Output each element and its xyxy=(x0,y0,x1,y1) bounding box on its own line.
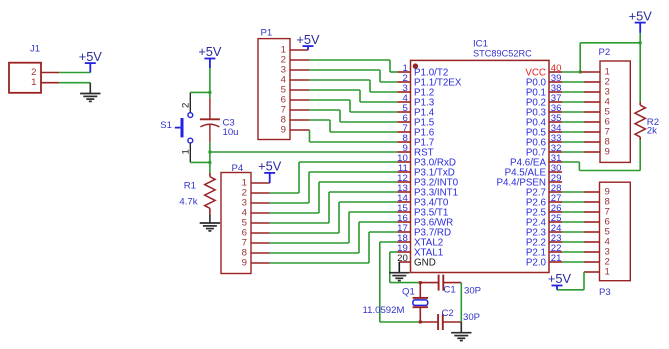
label IC1 xyxy=(473,38,488,49)
wire P1 pin3 to IC1 pin2 xyxy=(290,70,398,82)
label 11.0592M xyxy=(363,305,405,316)
svg-text:4.7k: 4.7k xyxy=(179,196,197,207)
IC1 pin 26 (P2.5) xyxy=(526,203,562,218)
svg-text:1: 1 xyxy=(31,77,36,88)
ground (J1) xyxy=(80,83,100,102)
junction (RST tap) xyxy=(208,151,211,154)
power +5V (P1) xyxy=(296,32,320,50)
svg-text:2: 2 xyxy=(181,103,192,108)
wire RST node to IC pin 9 xyxy=(210,151,398,153)
label C1 value 30P xyxy=(444,284,482,296)
wire IC1 pin32 (P0.7) to P2 pin9 xyxy=(562,151,600,153)
power +5V (P3) xyxy=(548,271,572,290)
wire P4 pin8 to IC1 pin16 xyxy=(251,222,398,253)
label C3 value 10u xyxy=(223,117,239,138)
wire P4 pin7 to IC1 pin15 xyxy=(251,212,398,243)
connector P1 xyxy=(258,28,290,140)
IC1 pin 35 (P0.4) xyxy=(526,113,562,128)
svg-text:9: 9 xyxy=(281,125,286,136)
capacitor C2 xyxy=(420,314,461,330)
svg-text:C2: C2 xyxy=(442,308,454,319)
wire P1 pin7 to IC1 pin6 xyxy=(290,110,398,122)
IC1 pin 37 (P0.2) xyxy=(526,93,562,108)
IC1 pin 34 (P0.5) xyxy=(526,123,562,138)
wire C3 bottom to RST node xyxy=(209,142,211,173)
IC1 pin 11 (P3.1/TxD) xyxy=(398,163,455,178)
IC1 pin 30 (P4.5/ALE) xyxy=(505,163,562,178)
svg-text:Q1: Q1 xyxy=(402,286,415,297)
IC1 pin 40 (VCC) xyxy=(525,63,562,78)
wire P4 pin9 to IC1 pin17 xyxy=(251,232,398,263)
wire J1 pin1 to ground xyxy=(41,82,90,84)
IC1 pin 4 (P1.3) xyxy=(398,93,435,108)
wire P1 pin8 to IC1 pin7 xyxy=(290,120,398,132)
wire P1 pin6 to IC1 pin5 xyxy=(290,100,398,112)
wire P1 pin9 to IC1 pin8 xyxy=(290,130,398,142)
IC1 pin 18 (XTAL2) xyxy=(397,233,443,248)
wire P4 pin2 to IC1 pin10 xyxy=(251,162,398,193)
svg-text:GND: GND xyxy=(414,257,436,268)
wire IC1 pin25 (P2.4) to P3 pin6 xyxy=(562,221,600,223)
IC1 pin 27 (P2.6) xyxy=(526,193,562,208)
wire S1 top to node xyxy=(190,91,210,93)
wire R2 bottom to IC pin31 EA xyxy=(562,140,640,170)
power +5V (top right) xyxy=(629,8,653,33)
crystal Q1 xyxy=(413,283,428,322)
capacitor C1 xyxy=(420,275,461,291)
svg-text:21: 21 xyxy=(551,253,562,264)
junction (S1 top node) xyxy=(208,91,211,94)
switch S1 xyxy=(160,92,192,162)
IC1 pin 21 (P2.0) xyxy=(526,253,562,268)
wire XTAL2 (pin18) to crystal bottom node xyxy=(380,242,421,322)
connector P3 xyxy=(599,182,630,298)
resistor R1 xyxy=(205,173,215,215)
wire IC1 pin38 (P0.1) to P2 pin3 xyxy=(562,91,600,93)
IC1 pin 24 (P2.3) xyxy=(526,223,562,238)
svg-text:+5V: +5V xyxy=(296,32,320,47)
IC1 pin 7 (P1.6) xyxy=(398,123,435,138)
IC1 pin 38 (P0.1) xyxy=(526,83,562,98)
IC1 pin 39 (P0.0) xyxy=(526,73,562,88)
svg-text:P4: P4 xyxy=(232,163,244,174)
IC1 pin 13 (P3.3/INT1) xyxy=(397,183,458,198)
label R1 value 4.7k xyxy=(179,181,197,208)
wire S1 bottom to node xyxy=(190,161,210,163)
wire P2 pin1 stub xyxy=(580,71,600,73)
IC1 pin 14 (P3.4/T0) xyxy=(397,193,449,208)
wire P4 pin4 to IC1 pin12 xyxy=(251,182,398,213)
wire IC1 pin22 (P2.1) to P3 pin3 xyxy=(562,251,600,253)
label R2 value 2k xyxy=(647,117,659,137)
svg-text:2k: 2k xyxy=(647,126,657,137)
IC1 pin 17 (P3.7/RD) xyxy=(397,223,451,238)
IC1 pin 29 (P4.4/PSEN) xyxy=(496,173,562,188)
wire P1 pin4 to IC1 pin3 xyxy=(290,80,398,92)
svg-text:P3: P3 xyxy=(599,287,611,298)
IC1 pin 9 (RST) xyxy=(398,143,434,158)
ground (IC GND pin20) xyxy=(389,262,409,281)
connector J1 xyxy=(9,44,41,93)
IC1 pin 15 (P3.5/T1) xyxy=(397,203,448,218)
IC1 pin 32 (P0.7) xyxy=(526,143,562,158)
svg-text:11.0592M: 11.0592M xyxy=(363,305,405,316)
svg-text:+5V: +5V xyxy=(79,49,103,64)
junction (+5V / R2 node) xyxy=(639,41,642,44)
wire IC1 pin34 (P0.5) to P2 pin7 xyxy=(562,131,600,133)
wire IC1 pin33 (P0.6) to P2 pin8 xyxy=(562,141,600,143)
junction (crystal bottom node) xyxy=(419,321,422,324)
IC1 pin 20 (GND) xyxy=(397,253,436,268)
power +5V (S1/C3) xyxy=(198,44,222,68)
wire P4 pin1 to +5V xyxy=(251,182,270,184)
IC1 pin 33 (P0.6) xyxy=(526,133,562,148)
junction (P2 pin1 tap) xyxy=(579,71,582,74)
svg-text:1: 1 xyxy=(181,149,192,154)
wire C1/C2 to ground xyxy=(460,283,462,322)
svg-text:9: 9 xyxy=(605,147,610,158)
wire IC1 pin37 (P0.2) to P2 pin4 xyxy=(562,101,600,103)
IC1 pin 36 (P0.3) xyxy=(526,103,562,118)
wire IC1 pin36 (P0.3) to P2 pin5 xyxy=(562,111,600,113)
IC1 pin 28 (P2.7) xyxy=(526,183,562,198)
IC1 pin 8 (P1.7) xyxy=(398,133,435,148)
svg-text:P2.0: P2.0 xyxy=(526,257,547,268)
IC1 pin 5 (P1.4) xyxy=(398,103,435,118)
IC1 pin 12 (P3.2/INT0) xyxy=(397,173,459,188)
wire P4 pin5 to IC1 pin13 xyxy=(251,192,398,223)
resistor R2 xyxy=(635,102,645,140)
power +5V (P4) xyxy=(258,159,282,183)
ground (R1) xyxy=(200,215,220,231)
wire IC1 pin24 (P2.3) to P3 pin5 xyxy=(562,231,600,233)
junction (S1 bottom tap) xyxy=(208,161,211,164)
svg-text:S1: S1 xyxy=(160,120,172,131)
svg-text:10u: 10u xyxy=(223,127,239,138)
svg-text:30P: 30P xyxy=(464,285,481,296)
svg-text:R1: R1 xyxy=(184,181,196,192)
wire P3 pin1 to +5V xyxy=(557,272,600,290)
label Q1 xyxy=(402,286,415,297)
wire IC1 pin21 (P2.0) to P3 pin2 xyxy=(562,261,600,263)
wire XTAL1 (pin19) to crystal top node xyxy=(390,252,421,283)
IC1 pin 2 (P1.1/T2EX) xyxy=(398,73,462,88)
IC1 pin 3 (P1.2) xyxy=(398,83,435,98)
wire +5V to R2 xyxy=(639,33,641,102)
svg-text:P1: P1 xyxy=(261,28,273,39)
pin number 2 (S1 top, rotated) xyxy=(181,103,192,108)
IC1 pin 1 (P1.0/T2) xyxy=(398,63,449,78)
svg-text:P2: P2 xyxy=(599,47,611,58)
op IC1 STC89C52RC body xyxy=(411,60,550,272)
connector P4 xyxy=(221,163,251,274)
wire IC1 pin23 (P2.2) to P3 pin4 xyxy=(562,241,600,243)
wire P1 pin1 to +5V xyxy=(290,49,308,51)
IC1 pin 10 (P3.0/RxD) xyxy=(397,153,456,168)
wire J1 pin2 to +5V xyxy=(41,72,90,74)
wire +5V to node S1top/C3 xyxy=(209,68,211,98)
svg-text:30P: 30P xyxy=(463,312,480,323)
svg-text:+5V: +5V xyxy=(629,8,653,23)
capacitor C3 xyxy=(200,98,220,142)
svg-text:+5V: +5V xyxy=(258,159,282,174)
label C2 value 30P xyxy=(442,308,481,323)
connector P2 xyxy=(599,47,631,162)
IC1 pin 22 (P2.1) xyxy=(526,243,562,258)
svg-text:+5V: +5V xyxy=(548,271,572,286)
wire P4 pin3 to IC1 pin11 xyxy=(251,172,398,203)
wire P4 pin6 to IC1 pin14 xyxy=(251,202,398,233)
wire IC1 pin26 (P2.5) to P3 pin7 xyxy=(562,211,600,213)
svg-text:1: 1 xyxy=(605,267,610,278)
svg-text:+5V: +5V xyxy=(198,44,222,59)
junction (crystal top node) xyxy=(419,281,422,284)
IC1 pin 6 (P1.5) xyxy=(398,113,435,128)
wire P1 pin5 to IC1 pin4 xyxy=(290,90,398,102)
wire P1 pin2 to IC1 pin1 xyxy=(290,60,398,72)
label STC89C52RC xyxy=(473,48,532,59)
ground (C1/C2) xyxy=(451,322,471,341)
wire IC1 pin39 (P0.0) to P2 pin2 xyxy=(562,81,600,83)
svg-text:9: 9 xyxy=(242,258,247,269)
svg-text:C1: C1 xyxy=(444,284,456,295)
svg-text:J1: J1 xyxy=(30,44,40,55)
IC1 pin 31 (P4.6/EA) xyxy=(510,153,562,168)
IC1 pin 25 (P2.4) xyxy=(526,213,562,228)
wire IC pin40 VCC to P2 pin1 and +5V xyxy=(562,43,640,72)
wire IC1 pin35 (P0.4) to P2 pin6 xyxy=(562,121,600,123)
wire IC1 pin27 (P2.6) to P3 pin8 xyxy=(562,201,600,203)
IC1 pin 19 (XTAL1) xyxy=(397,243,443,258)
svg-text:STC89C52RC: STC89C52RC xyxy=(473,48,532,59)
IC1 pin 23 (P2.2) xyxy=(526,233,562,248)
power +5V (J1) xyxy=(79,49,103,73)
wire IC1 pin28 (P2.7) to P3 pin9 xyxy=(562,191,600,193)
pin number 1 (S1 bottom, rotated) xyxy=(181,149,192,154)
IC1 pin 16 (P3.6/WR) xyxy=(397,213,453,228)
